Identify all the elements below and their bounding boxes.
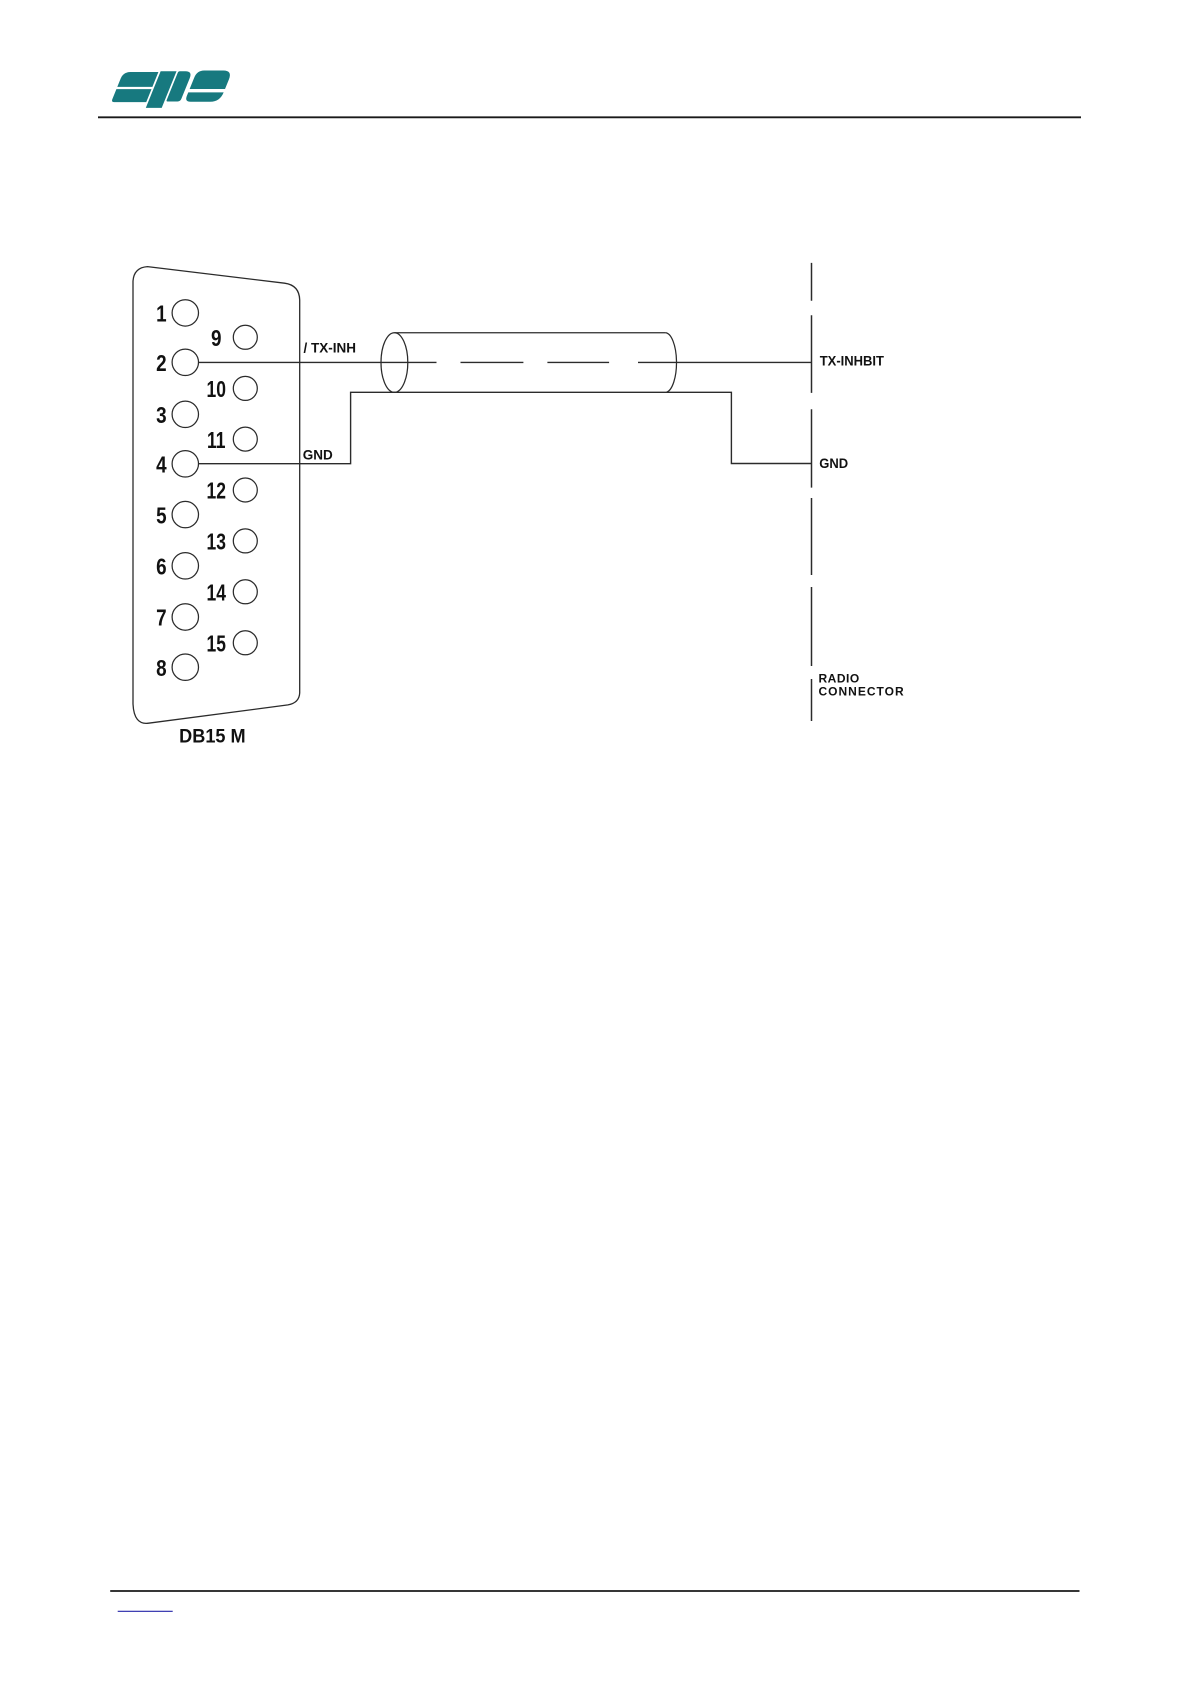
svg-text:GND: GND — [303, 448, 333, 463]
connector DB15 outline — [133, 267, 300, 724]
svg-text:15: 15 — [206, 632, 225, 657]
svg-text:9: 9 — [211, 326, 221, 351]
pin 1 — [172, 300, 198, 326]
pin 14 — [233, 580, 257, 604]
logo SPE letter e — [181, 71, 236, 102]
pin 9 — [233, 325, 257, 349]
cable left end ellipse — [381, 333, 408, 393]
svg-text:RADIO: RADIO — [819, 671, 860, 685]
wire TX-INH dash inside cable 2 — [547, 361, 609, 363]
pin 4 — [172, 451, 198, 477]
svg-text:8: 8 — [156, 656, 167, 681]
svg-text:12: 12 — [206, 480, 225, 505]
pin 6 — [172, 553, 198, 579]
svg-text:CONNECTOR: CONNECTOR — [819, 684, 905, 698]
pin 11 — [233, 427, 257, 451]
svg-text:GND: GND — [819, 456, 848, 472]
footer rule — [110, 1590, 1079, 1592]
pin 8 — [172, 654, 198, 680]
cable right end cap — [665, 333, 676, 392]
radio connector dashed boundary line — [811, 263, 813, 721]
footer blue link line — [118, 1610, 173, 1612]
svg-text:/ TX-INH: / TX-INH — [304, 341, 357, 356]
cable shield top line — [395, 332, 666, 334]
pin 13 — [233, 529, 257, 553]
logo SPE letter s — [111, 72, 158, 102]
svg-text:13: 13 — [206, 530, 225, 555]
svg-text:TX-INHBIT: TX-INHBIT — [820, 353, 885, 369]
svg-text:DB15 M: DB15 M — [179, 725, 245, 747]
svg-text:3: 3 — [156, 403, 166, 428]
pin 7 — [172, 604, 198, 630]
svg-text:11: 11 — [207, 429, 225, 454]
svg-text:6: 6 — [156, 555, 166, 580]
pin 15 — [233, 631, 257, 655]
svg-text:2: 2 — [156, 351, 166, 376]
wire GND from pin 4 over shield to radio connector — [198, 392, 811, 463]
wire TX-INH from cable to radio connector — [638, 361, 812, 363]
svg-text:5: 5 — [156, 504, 167, 529]
pin 12 — [233, 478, 257, 502]
svg-text:1: 1 — [156, 302, 167, 327]
svg-text:4: 4 — [156, 453, 167, 478]
svg-text:7: 7 — [156, 606, 166, 631]
svg-text:10: 10 — [206, 378, 225, 403]
pin 5 — [172, 501, 198, 527]
svg-text:14: 14 — [206, 581, 226, 606]
pin 3 — [172, 401, 198, 427]
pin 10 — [233, 376, 257, 400]
logo SPE letter p — [146, 71, 193, 108]
pin 2 — [172, 349, 198, 375]
header rule — [98, 116, 1081, 118]
wire /TX-INH from pin 2 into cable — [198, 361, 436, 363]
wire TX-INH dash inside cable 1 — [461, 361, 524, 363]
